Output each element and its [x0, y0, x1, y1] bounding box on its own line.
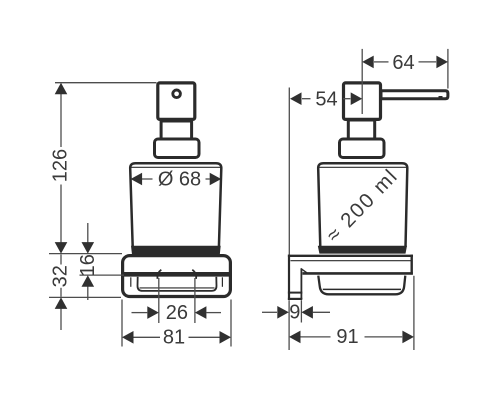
arrow 9 right (points left): [301, 306, 313, 319]
pump head (side): [344, 83, 381, 120]
pump head (front): [158, 83, 195, 120]
pump neck (front): [161, 121, 192, 139]
dim 91 line left: [301, 336, 331, 338]
tray cutout arc left: [157, 270, 161, 279]
dim 68 line left: [142, 178, 153, 180]
wall bracket inner edge: [300, 269, 302, 300]
dim 68 line right: [206, 178, 210, 180]
ext line 81 right: [230, 300, 232, 347]
ext line 26 right: [194, 278, 196, 323]
dim 91 line right: [365, 336, 403, 338]
wall bracket bottom edge: [288, 298, 302, 300]
ext line 26 left: [158, 278, 160, 323]
wall reference line lower: [288, 300, 290, 350]
holder inner wall tick right: [221, 277, 223, 287]
arrow 68 left: [131, 173, 143, 186]
dim 16 lower tail: [87, 287, 89, 301]
dim 81 line left: [134, 336, 161, 338]
dim 9 right tail: [313, 311, 330, 313]
arrow 91 right: [402, 331, 414, 344]
holder shelf front edge (thick): [124, 272, 229, 277]
holder outer body (front): [123, 256, 231, 297]
svg-text:91: 91: [336, 326, 358, 348]
dim 64 line right: [419, 61, 437, 63]
svg-text:9: 9: [289, 302, 300, 324]
spout end extension line: [447, 49, 449, 89]
pump neck (side): [348, 120, 374, 139]
arrow 81 left: [122, 331, 134, 344]
dim 126 line upper: [60, 94, 62, 148]
extension line holder top: [49, 253, 122, 255]
svg-text:26: 26: [166, 302, 188, 324]
ext line 81 left: [121, 300, 123, 347]
spout outlet inner lip: [439, 96, 443, 98]
svg-text:32: 32: [50, 265, 72, 287]
arrow 64 right: [436, 56, 448, 69]
arrow 64 left: [362, 56, 374, 69]
arrow 9 left (points right): [277, 306, 289, 319]
arrow 16 top (down): [82, 242, 95, 254]
dim 64 line left: [374, 61, 389, 63]
dim 26 left tail: [132, 312, 148, 314]
arrow 81 right: [220, 331, 232, 344]
bottle dark base band (front): [131, 246, 221, 255]
pump collar (side): [340, 139, 385, 158]
wall plate top edge (side): [288, 255, 413, 257]
pump head hole: [173, 90, 181, 98]
dim 26 right tail: [206, 312, 221, 314]
arrow 32 bottom (up): [55, 297, 68, 309]
wall plate right edge: [411, 255, 413, 275]
dim 81 line right: [189, 336, 220, 338]
bottle rim inner line (side): [319, 166, 407, 168]
dim 9 left tail: [262, 311, 277, 313]
bottle body (front): [130, 163, 221, 247]
arrow 16 bottom (up): [82, 275, 95, 287]
spout bar: [381, 91, 448, 99]
arrow 54 left: [290, 92, 302, 105]
holder inner wall tick left: [130, 277, 132, 287]
ext line 91 right: [413, 276, 415, 350]
wall plate bottom thick edge: [303, 272, 413, 275]
wall bracket hook chamfer: [301, 268, 307, 272]
dim 54 line right: [343, 98, 350, 100]
dim 32 line segments: [60, 255, 62, 265]
svg-text:126: 126: [50, 149, 72, 182]
wall bracket foot line: [288, 292, 302, 294]
dim 54 line left: [302, 98, 311, 100]
svg-text:81: 81: [163, 327, 185, 349]
ring inner line (side): [323, 288, 401, 290]
arrow 126 top: [55, 83, 68, 95]
arrow 91 left: [289, 331, 301, 344]
ext line 9 right (bracket inner): [300, 300, 302, 322]
extension line top of pump: [55, 82, 157, 84]
dim 126 line lower: [60, 185, 62, 243]
wall plate inner top line: [291, 260, 412, 262]
svg-text:Ø 68: Ø 68: [158, 168, 201, 190]
holder ring (side): [318, 276, 405, 295]
svg-text:16: 16: [77, 254, 99, 276]
arrow 26 right (points left): [195, 306, 207, 319]
arrow 68 right: [210, 173, 222, 186]
arrow 26 left (points right): [147, 306, 159, 319]
tray cutout arc right: [192, 270, 196, 279]
pump collar (front): [155, 139, 200, 158]
dim 32 lower tail: [60, 309, 62, 331]
extension line shelf level: [80, 274, 125, 276]
glass tray inside holder: [138, 277, 217, 291]
extension line holder bottom: [49, 296, 121, 298]
wall reference line upper: [288, 88, 290, 255]
svg-text:64: 64: [392, 52, 414, 74]
bottle body (side): [318, 163, 407, 247]
bottle dark base band (side): [318, 246, 407, 254]
svg-text:54: 54: [315, 89, 337, 111]
bottle rim inner line (front): [131, 166, 221, 168]
pump centre extension line: [361, 49, 363, 114]
dim 16 upper tail: [87, 223, 89, 243]
tray inner bottom line: [140, 287, 215, 289]
wall bracket outer edge: [288, 255, 290, 300]
arrow 126/32 middle (down): [55, 242, 68, 254]
arrow 54 right: [351, 92, 363, 105]
